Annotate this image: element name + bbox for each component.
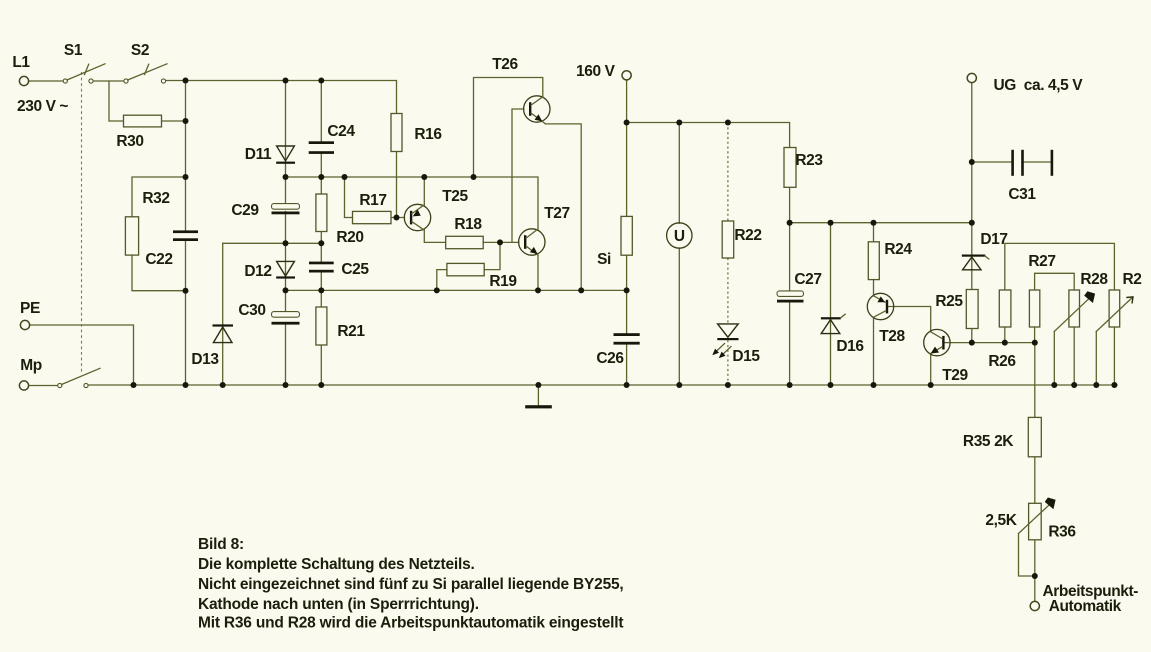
junction node T27 emitter xyxy=(535,287,541,293)
wire R36 wiper tail xyxy=(1019,534,1035,577)
resistor R20 xyxy=(316,194,327,232)
svg-text:C27: C27 xyxy=(794,271,821,288)
junction ground rail / T29 xyxy=(928,382,934,388)
svg-text:D12: D12 xyxy=(244,263,271,280)
junction ground rail / D15 xyxy=(725,382,731,388)
wire top rail S2 to R16 corner xyxy=(166,81,397,114)
wire 160V Si column x626.6 (C26 in line) xyxy=(626,80,628,385)
wire R28 wiper drop xyxy=(1053,332,1055,385)
wire R17 leads xyxy=(345,177,405,218)
wire node line y222.7 xyxy=(790,222,972,224)
terminal Mp xyxy=(19,381,28,390)
wire Mp to switch xyxy=(29,385,58,387)
svg-text:Mp: Mp xyxy=(20,357,42,374)
svg-text:D11: D11 xyxy=(245,146,272,163)
svg-text:T27: T27 xyxy=(544,205,570,222)
junction ground rail / C26 xyxy=(624,382,630,388)
junction node C25-R21 xyxy=(318,287,324,293)
junction top rail / D11 xyxy=(283,78,289,84)
wire R30 branch down xyxy=(109,81,186,121)
diode D11 xyxy=(276,146,295,164)
wire D16 branch xyxy=(830,223,832,385)
wire T27 emitter down xyxy=(537,255,539,290)
svg-text:R30: R30 xyxy=(116,133,143,150)
svg-text:Nicht eingezeichnet sind fünf: Nicht eingezeichnet sind fünf zu Si para… xyxy=(198,576,624,593)
meter U xyxy=(667,223,692,248)
resistor R17 xyxy=(353,211,392,223)
svg-text:C25: C25 xyxy=(341,261,369,278)
svg-text:R36: R36 xyxy=(1048,524,1076,541)
wire R26 bottom xyxy=(1004,327,1006,343)
svg-text:L1: L1 xyxy=(12,54,30,71)
resistor R25 xyxy=(966,290,978,329)
svg-text:D17: D17 xyxy=(980,231,1007,248)
junction top rail / C24 xyxy=(318,78,324,84)
junction node T25 collector xyxy=(421,174,427,180)
junction node D12-C30 xyxy=(283,287,289,293)
resistor R26 xyxy=(999,290,1011,327)
svg-text:R18: R18 xyxy=(454,216,482,233)
capacitor C29 (electrolytic) xyxy=(272,204,300,215)
svg-text:S1: S1 xyxy=(64,42,83,59)
ground symbol xyxy=(525,385,552,408)
potentiometer R28 xyxy=(1054,290,1095,332)
resistor R23 xyxy=(784,148,796,188)
resistor R24 xyxy=(868,242,879,280)
wire L1 to S1 xyxy=(29,80,64,82)
junction ground rail / D16 xyxy=(828,382,834,388)
LED D15 xyxy=(712,324,738,358)
wire diode chain x285.5 xyxy=(285,81,287,385)
svg-text:C30: C30 xyxy=(238,302,265,319)
junction node T26 emitter xyxy=(578,287,584,293)
wire T26 emitter down xyxy=(546,124,582,291)
svg-text:R20: R20 xyxy=(336,229,363,246)
wire T25 collector xyxy=(423,177,425,205)
junction ground rail / earth xyxy=(535,382,541,388)
wire R2 wiper drop xyxy=(1095,332,1097,385)
junction node R18-R19-T27 base xyxy=(497,239,503,245)
svg-text:UG ca. 4,5 V: UG ca. 4,5 V xyxy=(994,77,1084,94)
svg-text:Automatik: Automatik xyxy=(1049,598,1122,615)
junction ground rail / R2 xyxy=(1111,382,1117,388)
svg-text:Bild 8:: Bild 8: xyxy=(198,536,244,553)
transistor T26 xyxy=(524,96,550,124)
svg-text:R2: R2 xyxy=(1122,271,1141,288)
wire T26 base drop xyxy=(512,109,524,242)
wire T29 emitter down xyxy=(930,354,932,385)
svg-text:Si: Si xyxy=(597,251,611,268)
junction node R36 wiper xyxy=(1032,573,1038,579)
wire R32 loop xyxy=(132,177,186,291)
wire mid rail y290.4 xyxy=(286,289,627,291)
resistor R27 xyxy=(1029,290,1039,327)
svg-text:R35 2K: R35 2K xyxy=(963,433,1014,450)
switch S2 xyxy=(124,64,167,83)
switch S1 xyxy=(63,64,105,83)
svg-text:R21: R21 xyxy=(337,323,365,340)
wire C31 lead xyxy=(972,161,1051,163)
svg-text:C24: C24 xyxy=(327,123,355,140)
junction node C31 tap xyxy=(969,159,975,165)
terminal 160V xyxy=(622,71,631,80)
svg-text:T25: T25 xyxy=(442,188,468,205)
wire R18 to T27 base xyxy=(483,241,519,243)
wire T26 collector loop to rail xyxy=(474,78,543,178)
svg-text:T26: T26 xyxy=(492,56,518,73)
diode D12 xyxy=(276,261,295,278)
wire T25 emitter to R18 xyxy=(424,230,445,242)
wire T28 emitter down xyxy=(873,317,875,384)
svg-text:PE: PE xyxy=(20,300,40,317)
junction node Si mid xyxy=(624,287,630,293)
svg-text:R32: R32 xyxy=(142,190,169,207)
wire T28 base to T29 collector xyxy=(888,307,931,332)
junction node U meter top xyxy=(676,120,682,126)
svg-text:S2: S2 xyxy=(131,42,149,59)
wire R35 R36 column xyxy=(1034,343,1036,602)
switch Mp (coupled) xyxy=(58,368,100,387)
svg-text:C31: C31 xyxy=(1008,186,1036,203)
wire U meter column xyxy=(678,123,680,385)
junction node R16-R17-T25 base xyxy=(394,215,400,221)
junction top rail / R30-R32 branch xyxy=(183,78,189,84)
dashed mechanical link S1 Mp xyxy=(81,72,83,374)
wire R27 top bracket to R28 xyxy=(1035,273,1075,290)
junction node R23-C27 xyxy=(787,220,793,226)
resistor R16 xyxy=(391,114,402,152)
junction node D16 top xyxy=(828,220,834,226)
svg-text:R19: R19 xyxy=(489,273,517,290)
junction node T26 collector xyxy=(471,174,477,180)
junction R32 top xyxy=(183,174,189,180)
junction node R22 top xyxy=(725,120,731,126)
resistor R22 xyxy=(722,221,734,258)
svg-text:R24: R24 xyxy=(884,241,912,258)
capacitor C26 xyxy=(614,333,640,344)
terminal PE xyxy=(20,320,29,329)
junction ground rail / D13 xyxy=(220,382,226,388)
junction node R17 top xyxy=(342,174,348,180)
svg-text:2,5K: 2,5K xyxy=(985,512,1017,529)
junction ground rail / U meter xyxy=(676,382,682,388)
fuse Si xyxy=(621,216,632,255)
wire D13 column x222.7 xyxy=(222,243,224,384)
wire R19 branch xyxy=(437,242,500,290)
wire R27 bottom xyxy=(1034,327,1036,343)
resistor R18 xyxy=(446,236,484,248)
svg-text:C26: C26 xyxy=(596,350,624,367)
wire PE lead xyxy=(30,325,134,385)
junction node R20-C25 xyxy=(318,240,324,246)
transistor T28 (pnp mirrored) xyxy=(867,293,893,319)
svg-text:T29: T29 xyxy=(942,367,968,384)
svg-text:D16: D16 xyxy=(836,338,864,355)
junction node R27-R35 xyxy=(1032,340,1038,346)
diode D17 xyxy=(962,255,989,270)
junction node D11-C29 xyxy=(283,174,289,180)
svg-text:230 V ~: 230 V ~ xyxy=(17,98,68,115)
svg-text:R27: R27 xyxy=(1028,253,1055,270)
junction ground rail / R28 xyxy=(1071,382,1077,388)
junction R32 bottom xyxy=(183,288,189,294)
wire R23 C27 column xyxy=(789,148,791,385)
svg-text:R22: R22 xyxy=(734,227,761,244)
capacitor C24 xyxy=(309,141,334,154)
wire C24 R20 C25 R21 column x321.3 xyxy=(320,81,322,385)
junction ground rail / R28 wiper xyxy=(1051,382,1057,388)
terminal L1 xyxy=(19,76,28,85)
junction ground rail / C30 xyxy=(283,382,289,388)
resistor R21 xyxy=(316,307,327,345)
resistor R19 xyxy=(447,263,484,275)
svg-text:R16: R16 xyxy=(414,126,442,143)
resistor R32 xyxy=(125,217,138,255)
junction ground rail / C22 xyxy=(183,382,189,388)
junction node R19 drop xyxy=(434,287,440,293)
wire R2 bottom xyxy=(1113,327,1115,385)
svg-text:D13: D13 xyxy=(191,351,219,368)
terminal Arbeitspunkt xyxy=(1030,601,1039,610)
wire R28 bottom xyxy=(1073,327,1075,385)
junction ground rail / PE xyxy=(131,382,137,388)
svg-text:R23: R23 xyxy=(795,152,823,169)
potentiometer R2 xyxy=(1096,290,1133,332)
wire R26 top loop to R2 xyxy=(1005,243,1115,290)
svg-text:R28: R28 xyxy=(1080,271,1108,288)
wire node line D13 to D12 xyxy=(223,242,322,244)
capacitor C22 xyxy=(173,230,198,241)
junction node R25 bottom xyxy=(969,340,975,346)
svg-text:D15: D15 xyxy=(732,348,760,365)
svg-text:Die komplette Schaltung des Ne: Die komplette Schaltung des Netzteils. xyxy=(198,556,475,573)
wire rail y176.5 D11 to T27 collector xyxy=(286,177,539,229)
svg-text:Mit R36 und R28 wird die Arbei: Mit R36 und R28 wird die Arbeitspunktaut… xyxy=(198,615,623,632)
svg-text:Kathode nach unten (in Sperrri: Kathode nach unten (in Sperrrichtung). xyxy=(198,596,479,613)
junction ground rail / C27 xyxy=(787,382,793,388)
wire R24 T28 collector xyxy=(873,223,875,296)
resistor R30 xyxy=(124,115,162,127)
svg-text:R26: R26 xyxy=(988,353,1016,370)
junction ground rail / R2 wiper xyxy=(1093,382,1099,388)
junction R30 right xyxy=(183,118,189,124)
capacitor C25 xyxy=(309,262,334,273)
junction node C29-D12 xyxy=(283,240,289,246)
junction ground rail / R21 xyxy=(318,382,324,388)
svg-text:R17: R17 xyxy=(359,192,386,209)
transistor T25 xyxy=(404,204,430,230)
potentiometer R36 xyxy=(1019,497,1057,540)
junction node R24 top xyxy=(871,220,877,226)
wire top line y122.5 to R23 xyxy=(627,123,790,148)
junction node C24-R20 xyxy=(318,174,324,180)
diode D13 xyxy=(213,324,234,342)
junction node UG-D17 xyxy=(969,220,975,226)
wire R16 vertical xyxy=(396,114,398,218)
wire bottom ground rail xyxy=(88,384,1117,386)
svg-text:C29: C29 xyxy=(231,202,259,219)
terminal UG xyxy=(967,73,976,82)
capacitor C30 (electrolytic) xyxy=(272,312,300,325)
svg-text:C22: C22 xyxy=(145,251,172,268)
transistor T29 (mirrored) xyxy=(924,329,950,355)
capacitor C27 (electrolytic) xyxy=(777,291,804,303)
wire dotted R22 D15 branch xyxy=(727,123,729,385)
junction node 160V rail xyxy=(624,120,630,126)
wire node line y342.6 xyxy=(945,342,1035,344)
svg-text:R25: R25 xyxy=(935,293,963,310)
wire main left vertical x185.5 (C22 in line) xyxy=(185,81,187,385)
wire S1 to S2 (with R30 tee) xyxy=(93,80,124,82)
resistor R35 xyxy=(1028,417,1041,456)
svg-text:160 V: 160 V xyxy=(576,63,616,80)
junction ground rail / T28 xyxy=(871,382,877,388)
wire UG D17 R25 column xyxy=(971,83,973,343)
svg-text:U: U xyxy=(674,228,685,245)
zener diode D16 xyxy=(821,314,845,333)
transistor T27 xyxy=(519,229,545,255)
svg-text:T28: T28 xyxy=(879,328,905,345)
junction node R26 bottom xyxy=(1002,340,1008,346)
capacitor C31 xyxy=(1011,150,1053,176)
